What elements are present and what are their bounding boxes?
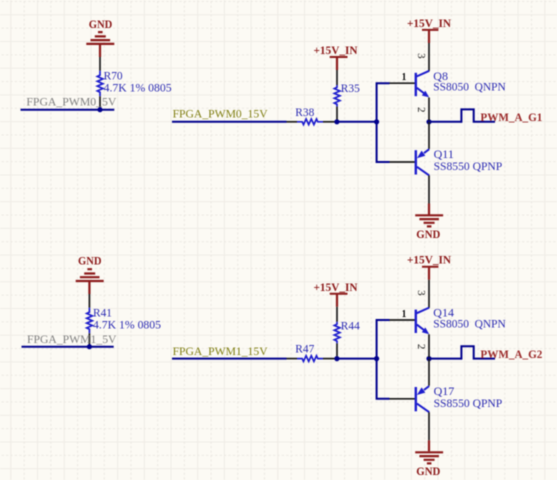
svg-text:SS8050 QNPN: SS8050 QNPN [433,317,506,330]
junction (output node) [426,356,431,361]
svg-text:R47: R47 [295,341,314,355]
wire (R38 to rail) [337,121,377,123]
wire (rail to output node) [429,358,461,360]
pin 1 base [390,82,416,84]
power +15V_IN (above R44) [314,280,358,307]
transistor Q8 [390,43,507,121]
svg-text:GND: GND [89,17,113,31]
pin 3 collector [428,175,430,203]
resistor R44 [334,318,360,343]
svg-text:SS8050 QNPN: SS8050 QNPN [433,81,506,94]
base bar [415,387,417,411]
svg-text:4.7K 1% 0805: 4.7K 1% 0805 [93,319,161,332]
resistor R41 [87,306,161,334]
junction (R35 / net) [334,119,339,124]
resistor R35 [334,81,360,106]
pin 3 collector [428,280,430,308]
svg-text:R44: R44 [341,318,360,332]
emitter stroke with arrow [424,149,429,153]
pin 1 base [390,398,416,400]
svg-text:+15V_IN: +15V_IN [407,253,451,267]
pin (R44 pin 1) [336,307,338,322]
collector stroke [417,71,429,77]
pin (R38 pin 2) [323,121,337,123]
base bar [415,73,417,96]
transistor Q11 [390,122,503,204]
svg-text:R41: R41 [93,306,112,320]
svg-text:SS8550 QPNP: SS8550 QPNP [434,397,503,410]
junction (R70 / FPGA_PWM0_5V) [97,107,102,112]
pin 1 base [390,319,416,321]
wire (R47 to rail) [337,358,377,360]
resistor R38 [295,105,323,124]
wire rail (bases of Q8/Q11) [377,83,390,162]
wire net FPGA_PWM1_5V [22,346,114,348]
pin (R41 pin 2, to net) [88,333,90,345]
pulse symbol (PWM_A_G2) [461,346,495,359]
pin (R41 pin 1, to GND) [88,294,90,308]
svg-text:GND: GND [78,254,102,268]
pin (R44 pin 2) [336,343,338,356]
transistor Q17 [390,359,503,441]
junction (output node) [426,119,431,124]
junction (R41 / FPGA_PWM1_5V) [87,344,92,349]
emitter stroke with arrow [417,325,425,331]
pin (R35 pin 1) [336,70,338,85]
svg-text:+15V_IN: +15V_IN [314,43,358,57]
svg-text:R35: R35 [341,81,360,95]
wire rail (bases of Q14/Q17) [377,320,390,399]
pin 1 base [390,161,416,163]
svg-text:3: 3 [415,290,427,296]
svg-text:+15V_IN: +15V_IN [314,280,358,294]
svg-text:SS8550 QPNP: SS8550 QPNP [434,160,503,173]
pin (R47 pin 1) [287,358,298,360]
ground GND (below Q17) [415,440,443,478]
junction (rail / net) [374,356,379,361]
junction (rail / net) [374,119,379,124]
collector stroke [417,308,429,314]
svg-text:R38: R38 [295,105,314,119]
pin (R38 pin 1) [287,121,298,123]
base bar [415,310,417,333]
pin 2 emitter [428,122,430,149]
emitter stroke with arrow [417,88,425,94]
pin (R70 pin 2, to net) [99,96,101,108]
svg-text:1: 1 [402,71,407,83]
wire (rail to output node) [429,121,461,123]
base bar [415,150,417,174]
collector stroke [417,167,429,176]
pin (R35 pin 2) [336,107,338,120]
svg-text:Q17: Q17 [434,384,455,398]
resistor R47 [295,341,323,361]
ground GND (top-left, above R70) [86,17,114,57]
ground GND (below Q11) [415,204,443,241]
svg-text:1: 1 [402,308,407,320]
svg-text:PWM_A_G2: PWM_A_G2 [480,348,542,361]
pin (R70 pin 1, to GND) [99,57,101,71]
emitter stroke with arrow [424,386,429,390]
pin 2 emitter [428,359,430,386]
svg-text:4.7K 1% 0805: 4.7K 1% 0805 [104,81,172,94]
resistor R70 [97,69,171,97]
ground GND (bottom-left, above R41) [76,254,104,295]
pin 3 collector [428,412,430,440]
svg-text:FPGA_PWM1_15V: FPGA_PWM1_15V [173,344,268,358]
wire net FPGA_PWM0_5V [21,109,115,111]
pulse symbol (PWM_A_G1) [461,109,495,122]
wire net FPGA_PWM0_15V (left segment) [172,121,287,123]
svg-text:2: 2 [415,344,427,350]
svg-text:+15V_IN: +15V_IN [407,16,451,30]
svg-text:2: 2 [415,107,427,113]
pin (R47 pin 2) [323,358,337,360]
svg-text:GND: GND [416,227,440,241]
pin 2 emitter [428,98,430,121]
pin 3 collector [428,43,430,71]
svg-text:FPGA_PWM0_5V: FPGA_PWM0_5V [26,94,116,108]
transistor Q14 [390,280,507,358]
power +15V_IN (above R35) [314,43,358,70]
svg-text:3: 3 [415,53,427,59]
pin 2 emitter [428,334,430,357]
collector stroke [417,404,429,413]
junction (R44 / net) [334,356,339,361]
svg-text:PWM_A_G1: PWM_A_G1 [480,111,542,124]
svg-text:Q11: Q11 [434,147,454,161]
power +15V_IN (above Q14) [407,253,451,280]
svg-text:FPGA_PWM1_5V: FPGA_PWM1_5V [27,332,117,346]
svg-text:FPGA_PWM0_15V: FPGA_PWM0_15V [173,107,268,121]
svg-text:GND: GND [416,464,440,478]
power +15V_IN (above Q8) [407,16,451,43]
wire net FPGA_PWM1_15V (left segment) [172,358,287,360]
